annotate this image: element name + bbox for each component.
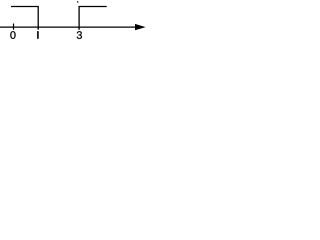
label 3: [77, 31, 82, 39]
tick t=3 (below axis nub): [78, 27, 80, 30]
axis arrowhead: [135, 24, 146, 30]
label 0: [10, 31, 15, 39]
waveform: first pulse top (0 to 1): [11, 7, 38, 28]
label 1: [37, 31, 39, 39]
time axis: [0, 26, 139, 28]
stray dot above t=3 corner: [77, 1, 78, 2]
waveform: step rise at 3 and high level onward: [79, 7, 107, 28]
tick t=1 (below axis nub): [37, 27, 39, 30]
tick t=0: [13, 24, 15, 30]
